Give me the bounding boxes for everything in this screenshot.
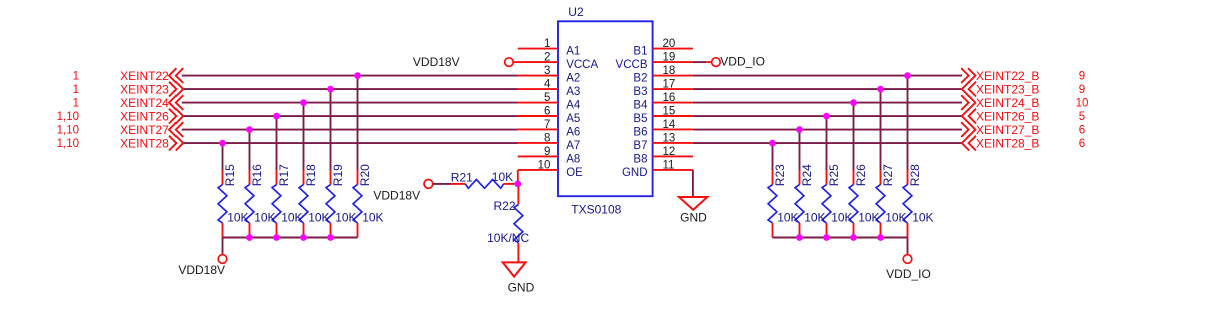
svg-text:10K: 10K [281,210,302,224]
svg-text:XEINT28_B: XEINT28_B [976,136,1039,150]
svg-text:A6: A6 [566,126,580,138]
svg-text:10K: 10K [885,210,906,224]
svg-text:VDD18V: VDD18V [178,263,225,277]
svg-text:R22: R22 [493,199,515,213]
svg-text:GND: GND [622,167,648,179]
svg-text:4: 4 [544,79,551,91]
svg-text:XEINT26: XEINT26 [120,109,169,123]
svg-text:1,10: 1,10 [57,138,79,150]
svg-text:VDD_IO: VDD_IO [886,267,931,281]
svg-text:3: 3 [544,65,550,77]
svg-text:14: 14 [663,119,676,131]
svg-text:VDD18V: VDD18V [373,188,420,202]
svg-text:XEINT28: XEINT28 [120,136,169,150]
svg-text:B4: B4 [633,100,648,112]
svg-text:VCCB: VCCB [616,59,648,71]
svg-text:R20: R20 [358,164,372,186]
svg-text:10K: 10K [858,210,879,224]
svg-text:U2: U2 [568,5,584,19]
svg-text:R21: R21 [451,171,473,185]
svg-text:A7: A7 [566,140,580,152]
svg-text:10: 10 [1076,98,1089,110]
svg-text:B3: B3 [633,86,647,98]
svg-text:GND: GND [508,280,535,294]
svg-text:XEINT23_B: XEINT23_B [976,82,1039,96]
svg-text:10K/NC: 10K/NC [487,231,529,245]
svg-text:R18: R18 [304,164,318,186]
svg-text:GND: GND [680,210,707,224]
svg-text:10K: 10K [777,210,798,224]
svg-text:17: 17 [663,79,676,91]
svg-text:10K: 10K [831,210,852,224]
svg-text:11: 11 [663,159,675,171]
svg-text:1: 1 [544,38,550,50]
svg-text:18: 18 [663,65,676,77]
svg-text:R28: R28 [908,164,922,186]
svg-text:7: 7 [544,119,550,131]
svg-text:10K: 10K [804,210,825,224]
svg-text:VDD18V: VDD18V [413,55,460,69]
svg-text:R24: R24 [800,164,814,186]
svg-text:10K: 10K [492,170,513,184]
svg-text:R23: R23 [773,164,787,186]
svg-text:XEINT24_B: XEINT24_B [976,96,1039,110]
svg-text:B8: B8 [633,153,647,165]
svg-text:XEINT22: XEINT22 [120,69,169,83]
svg-text:9: 9 [1079,71,1085,83]
svg-text:XEINT24: XEINT24 [120,96,169,110]
svg-text:R25: R25 [827,164,841,186]
svg-text:A4: A4 [566,100,581,112]
svg-text:B6: B6 [633,126,647,138]
svg-text:R17: R17 [277,164,291,186]
svg-text:10K: 10K [227,210,248,224]
svg-text:OE: OE [566,167,583,179]
svg-text:10K: 10K [362,210,383,224]
svg-text:1: 1 [73,71,79,83]
svg-text:9: 9 [1079,84,1085,96]
svg-text:8: 8 [544,132,550,144]
svg-text:10K: 10K [335,210,356,224]
svg-text:XEINT22_B: XEINT22_B [976,69,1039,83]
svg-text:10K: 10K [912,210,933,224]
svg-text:TXS0108: TXS0108 [571,203,621,217]
svg-text:VDD_IO: VDD_IO [720,55,765,69]
svg-text:R27: R27 [881,164,895,186]
svg-text:A5: A5 [566,113,580,125]
svg-text:10K: 10K [308,210,329,224]
svg-text:10K: 10K [254,210,275,224]
svg-text:13: 13 [663,132,676,144]
svg-text:B1: B1 [633,46,647,58]
svg-text:16: 16 [663,92,676,104]
svg-text:A1: A1 [566,46,580,58]
svg-text:XEINT23: XEINT23 [120,82,169,96]
svg-text:R15: R15 [223,164,237,186]
svg-text:B2: B2 [633,73,647,85]
svg-text:9: 9 [544,146,550,158]
svg-text:B5: B5 [633,113,647,125]
svg-text:R19: R19 [331,164,345,186]
svg-text:R16: R16 [250,164,264,186]
svg-text:15: 15 [663,106,676,118]
svg-text:A3: A3 [566,86,580,98]
svg-text:6: 6 [1079,125,1085,137]
svg-text:R26: R26 [854,164,868,186]
svg-text:XEINT27_B: XEINT27_B [976,123,1039,137]
svg-text:1: 1 [73,98,79,110]
svg-text:2: 2 [544,52,550,64]
svg-text:6: 6 [544,106,550,118]
svg-text:5: 5 [544,92,550,104]
svg-text:12: 12 [663,146,676,158]
svg-text:A2: A2 [566,73,580,85]
svg-text:XEINT26_B: XEINT26_B [976,109,1039,123]
svg-text:1,10: 1,10 [57,125,79,137]
svg-text:XEINT27: XEINT27 [120,123,169,137]
svg-text:10: 10 [538,159,551,171]
svg-text:A8: A8 [566,153,580,165]
svg-text:1,10: 1,10 [57,111,79,123]
svg-text:VCCA: VCCA [566,59,598,71]
svg-text:5: 5 [1079,111,1085,123]
svg-text:B7: B7 [633,140,647,152]
svg-text:19: 19 [663,52,676,64]
svg-text:20: 20 [663,38,676,50]
svg-text:1: 1 [73,84,79,96]
svg-text:6: 6 [1079,138,1085,150]
